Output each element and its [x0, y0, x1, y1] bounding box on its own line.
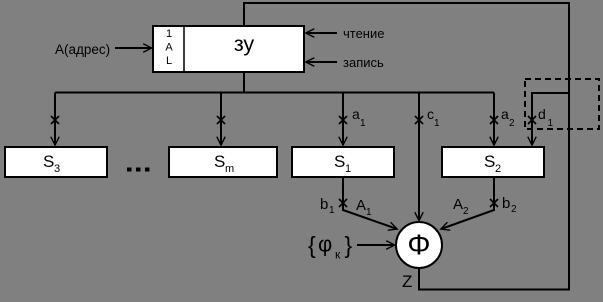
svg-text:1: 1: [434, 118, 440, 129]
label a1: [352, 106, 366, 129]
wire feedback Z: memory top to right rail: [244, 3, 569, 290]
label A1: [356, 197, 372, 218]
svg-text:А: А: [165, 42, 173, 54]
wire drop to Sm: [220, 93, 222, 146]
label b2: [502, 195, 517, 215]
svg-text:2: 2: [463, 206, 469, 217]
svg-text:S: S: [214, 152, 225, 171]
wire bus horizontal: [55, 92, 494, 94]
svg-text:зу: зу: [234, 32, 255, 56]
svg-text:b: b: [502, 195, 510, 212]
svg-text:1: 1: [360, 118, 366, 129]
svg-text:S: S: [43, 152, 54, 171]
svg-text:d: d: [538, 106, 546, 122]
svg-text:1: 1: [345, 163, 351, 175]
cross on d1 drop: [528, 116, 536, 124]
wire S2 output b2 to Phi: [441, 177, 494, 229]
cross on Sm drop: [217, 116, 225, 124]
cross on a2 drop: [490, 116, 498, 124]
svg-text:{: {: [308, 232, 316, 258]
register S2: [442, 147, 544, 177]
svg-text:φ: φ: [318, 232, 332, 257]
svg-text:S: S: [484, 152, 495, 171]
svg-text:A: A: [356, 197, 366, 214]
cross on S3 drop: [51, 116, 59, 124]
svg-text:}: }: [345, 232, 353, 258]
svg-text:3: 3: [54, 163, 60, 175]
label A2: [453, 196, 469, 217]
svg-text:2: 2: [511, 204, 517, 215]
svg-text:чтение: чтение: [343, 26, 384, 41]
svg-text:1: 1: [366, 207, 372, 218]
svg-text:А(адрес): А(адрес): [55, 42, 110, 57]
svg-text:запись: запись: [343, 55, 384, 70]
label b1: [320, 196, 335, 216]
svg-text:к: к: [335, 248, 341, 262]
register S3: [5, 147, 107, 177]
cross on b1 output: [339, 199, 347, 207]
dashed feedback box: [525, 79, 599, 129]
wire drop c1 to Phi: [418, 93, 420, 221]
svg-text:S: S: [334, 152, 345, 171]
wire phi-k input arrow: [357, 244, 395, 246]
svg-text:Φ: Φ: [407, 230, 430, 262]
cross on b2 output: [490, 199, 498, 207]
register S1: [292, 147, 394, 177]
wire memory bottom to bus: [243, 72, 245, 93]
svg-text:2: 2: [509, 118, 515, 129]
cross on c1 drop: [415, 116, 423, 124]
svg-text:1: 1: [166, 28, 172, 40]
ellipsis dots: [127, 168, 150, 172]
cross on a1 drop: [339, 116, 347, 124]
label d1: [538, 106, 554, 129]
wire read input arrow: [306, 32, 337, 34]
svg-text:1: 1: [548, 118, 554, 129]
svg-text:m: m: [225, 163, 234, 175]
svg-text:Z: Z: [402, 272, 412, 291]
label a2: [501, 106, 515, 129]
wire address input arrow: [115, 47, 152, 49]
label c1: [427, 106, 440, 129]
register Sm: [169, 147, 277, 177]
svg-text:A: A: [453, 196, 463, 213]
svg-text:c: c: [427, 106, 434, 122]
svg-text:1: 1: [329, 205, 335, 216]
label phi-k set: [308, 232, 353, 262]
wire write input arrow: [306, 61, 337, 63]
wire branch to d1 from right rail: [532, 93, 569, 145]
function circle Phi: [396, 222, 442, 268]
svg-text:2: 2: [495, 163, 501, 175]
wire drop a2 to S2: [493, 93, 495, 146]
svg-text:L: L: [166, 55, 172, 67]
svg-text:b: b: [320, 196, 328, 213]
svg-text:a: a: [352, 106, 360, 122]
wire drop to S3: [54, 93, 56, 146]
wire S1 output b1 to Phi: [343, 177, 397, 229]
memory unit ZU box: [153, 26, 304, 72]
wire drop a1 to S1: [342, 93, 344, 146]
svg-text:a: a: [501, 106, 509, 122]
